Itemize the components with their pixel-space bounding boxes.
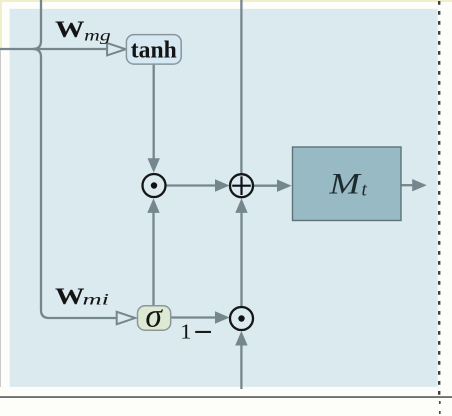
svg-text:σ: σ: [145, 298, 163, 335]
svg-text:tanh: tanh: [131, 38, 177, 64]
svg-text:mi: mi: [83, 292, 110, 309]
svg-text:W: W: [55, 284, 85, 310]
svg-text:M: M: [328, 169, 362, 201]
svg-text:W: W: [55, 17, 85, 43]
svg-text:1: 1: [180, 320, 192, 344]
svg-text:t: t: [362, 179, 368, 200]
svg-text:mg: mg: [84, 27, 111, 44]
